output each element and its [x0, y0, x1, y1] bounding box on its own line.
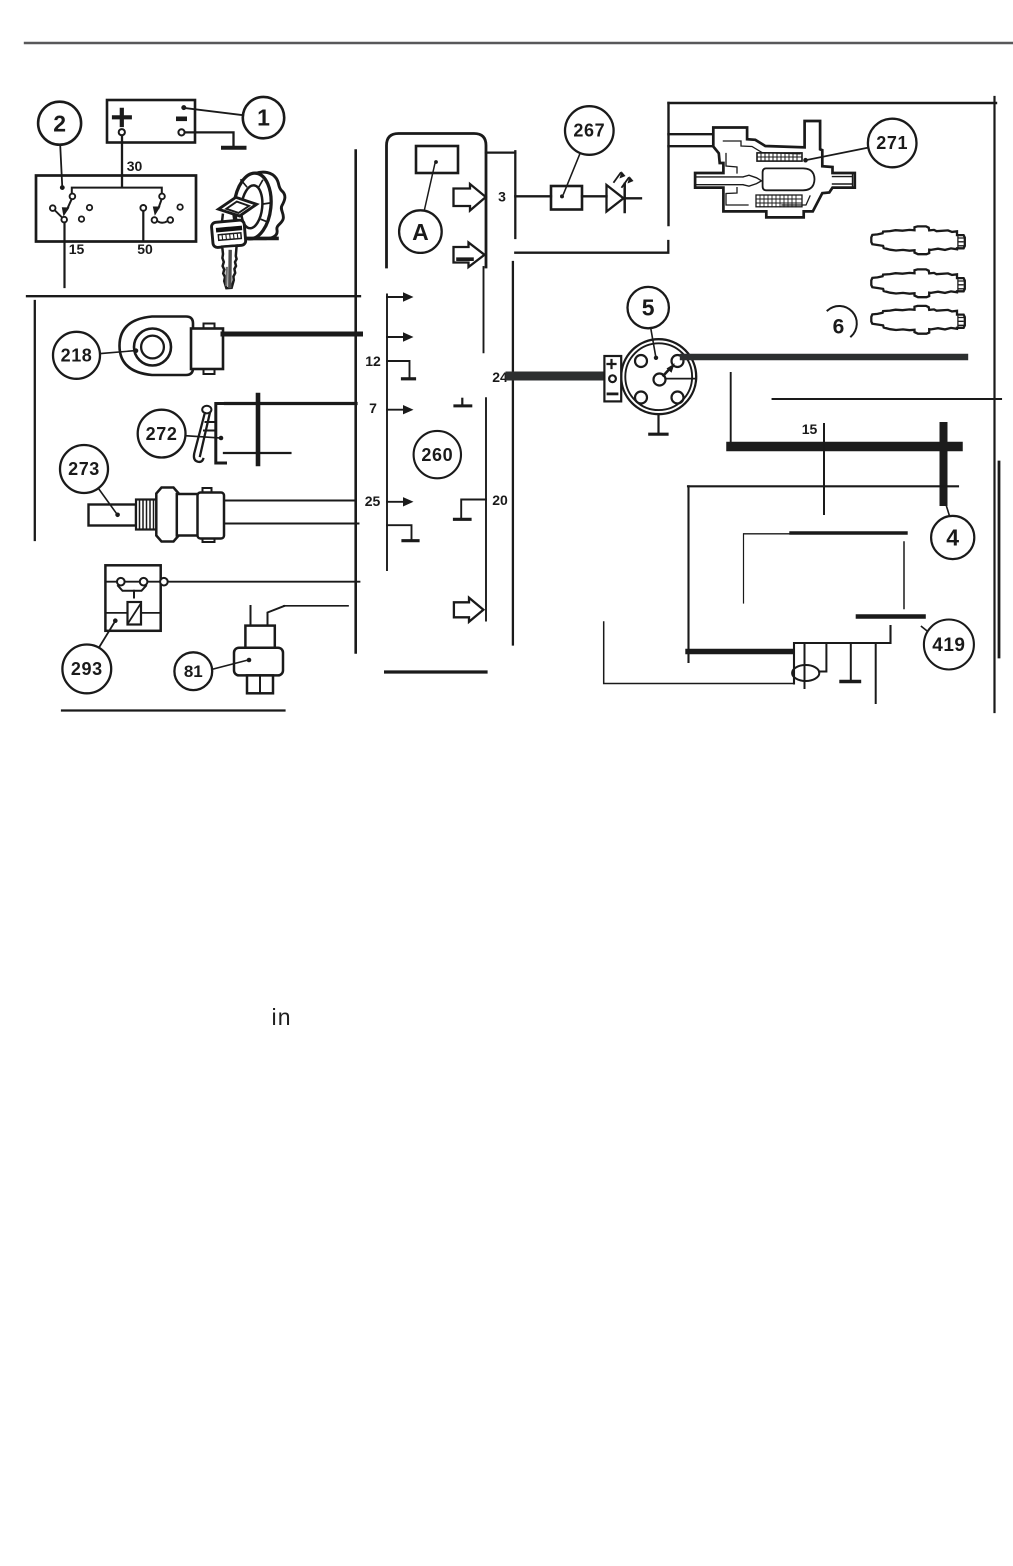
vertical drop wire [730, 373, 732, 442]
key head [211, 220, 246, 248]
left switch arrowhead [62, 207, 70, 216]
key head dark stripe [218, 228, 240, 230]
svg-text:260: 260 [421, 445, 453, 465]
relay 293 box [105, 565, 160, 631]
leader line 273 [99, 489, 117, 513]
plug contact BR [672, 392, 684, 404]
module pin4 [875, 643, 877, 703]
sensor hex nut [156, 488, 178, 542]
pin T symbol [461, 399, 463, 404]
relay mid line [105, 612, 160, 614]
battery 1 [107, 100, 195, 143]
callout circle 271 [868, 119, 917, 168]
horizontal wire upper right [773, 398, 1001, 400]
leader dot 271 [803, 158, 808, 163]
drop to 271 [667, 103, 669, 225]
271 inner contour [723, 141, 810, 205]
wire battery minus to ground [185, 132, 234, 144]
leader line 267 [564, 154, 581, 195]
svg-text:218: 218 [61, 346, 93, 366]
relay bridge [118, 586, 146, 591]
module coil ellipse [792, 665, 819, 681]
lower stub wire 272 [224, 452, 290, 454]
long left vertical line [354, 151, 357, 653]
battery positive terminal [119, 129, 125, 135]
271 injector core [763, 168, 815, 190]
stray contact a [87, 205, 92, 210]
inner box left vertical [743, 534, 745, 603]
battery plus mark [114, 110, 130, 125]
thin vertical through bus [823, 424, 825, 514]
LED light arrows [614, 173, 621, 182]
leader dot 273 [115, 513, 120, 518]
right switch arm [159, 200, 162, 209]
switch 272 legs [194, 413, 205, 462]
thick vertical bar [940, 426, 948, 502]
ECU right top segment [483, 267, 485, 352]
ignition switch 2 box [36, 176, 196, 242]
left switch arm [67, 200, 71, 210]
wire fuse to LED [582, 195, 607, 197]
module ground bar [841, 680, 860, 683]
relay stub [133, 591, 135, 598]
leader line A [425, 164, 435, 210]
ground (battery) [223, 146, 245, 150]
stub into 271 lower [669, 145, 715, 147]
callout circle 81 [174, 652, 212, 690]
svg-text:30: 30 [127, 158, 143, 174]
arrow pin 3 [454, 184, 486, 211]
pin step lower [387, 525, 412, 538]
knock sensor 218 body [120, 317, 194, 376]
crossing stub wire [256, 395, 261, 464]
ECU left pin spine [386, 295, 388, 571]
thick wire 24 [510, 372, 604, 381]
LED cathode [623, 184, 626, 212]
lock base bar [249, 237, 277, 241]
top grey rule [25, 42, 1013, 44]
wire 30 from battery to switch [121, 136, 123, 188]
svg-text:2: 2 [53, 111, 66, 137]
leader line 81 [212, 660, 247, 669]
LED triangle [607, 185, 624, 212]
pin arrow 25 [387, 501, 404, 503]
svg-text:419: 419 [932, 635, 965, 656]
lock ring inner [239, 184, 264, 229]
leader dot in switch box [60, 185, 65, 190]
module pin2 [819, 643, 826, 672]
lock escutcheon wavy edge [252, 172, 285, 239]
left corner vertical [687, 486, 689, 662]
ECU bottom divider [386, 670, 486, 673]
distributor ground bar [650, 433, 667, 436]
leader line 218 [100, 351, 134, 354]
inner box top thin [744, 533, 906, 535]
injection unit 271 outline [695, 121, 855, 217]
contact 30 left [70, 194, 76, 200]
pressure switch 81 pin2 [268, 606, 285, 626]
wire 50 [142, 211, 144, 240]
svg-text:12: 12 [365, 353, 381, 369]
left bracket line [34, 301, 36, 540]
leader dot 293 [113, 618, 118, 623]
right edge vertical [993, 97, 995, 712]
module pin1 through coil [804, 643, 806, 688]
leader line from 2 [60, 145, 62, 186]
svg-text:271: 271 [876, 133, 908, 153]
callout circle 2 [38, 102, 81, 145]
wire from 81 [284, 605, 348, 607]
label 6 arc [828, 306, 857, 337]
contact left aux [50, 205, 56, 211]
switch 81 hex [247, 675, 273, 693]
271 coil hatched top [757, 153, 802, 161]
leader line 5 [651, 329, 656, 356]
connector bump top [204, 324, 215, 329]
switch 272 rungs [204, 422, 216, 431]
top link [486, 151, 515, 153]
rotor arrow [664, 370, 670, 376]
module pin3 ground stem [850, 643, 852, 680]
pin arrow top2 [387, 336, 404, 338]
right switch arrowhead [153, 207, 161, 216]
svg-text:81: 81 [184, 662, 203, 681]
svg-text:3: 3 [498, 189, 506, 205]
outer right column upper [514, 151, 516, 238]
thick wire to coil [683, 354, 965, 360]
leader line to 1 [186, 108, 243, 115]
wire 7 from 272 [226, 402, 357, 405]
callout circle 419 [924, 620, 974, 670]
svg-text:A: A [412, 219, 429, 245]
contact 15 [61, 217, 67, 223]
plug contact TL [635, 355, 647, 367]
svg-text:293: 293 [71, 659, 103, 679]
sensor body [177, 494, 199, 536]
thick wire 218 to ECU [223, 332, 361, 337]
contact st left [152, 217, 158, 223]
271 needle [695, 175, 761, 186]
distributor inner circle [625, 343, 692, 410]
svg-text:1: 1 [257, 105, 270, 131]
pin arrow top1 [387, 296, 404, 298]
bottom divider line [62, 709, 285, 711]
key head hatched stripe [218, 233, 241, 241]
callout circle 5 [628, 287, 669, 328]
svg-text:25: 25 [365, 493, 381, 509]
svg-text:15: 15 [802, 421, 818, 437]
svg-text:6: 6 [833, 316, 845, 339]
svg-text:5: 5 [642, 295, 655, 321]
key blade [222, 246, 236, 289]
plug contact BL [635, 392, 647, 404]
stub into 271 upper [669, 133, 715, 135]
leader line 4 [946, 503, 950, 516]
horizontal wire mid [688, 485, 958, 487]
callout circle 272 [138, 410, 186, 458]
inner box top thick overlay [791, 531, 906, 534]
svg-text:273: 273 [68, 459, 100, 479]
section divider line [27, 295, 360, 297]
ring hatch marks [241, 180, 270, 222]
temp sensor 273 probe [89, 505, 137, 526]
callout circle 4 [931, 516, 974, 559]
pin 12 step [387, 361, 410, 377]
contact 50 top [140, 205, 146, 211]
pin arrow 7 [387, 409, 404, 411]
switch 272 roller [202, 406, 211, 414]
battery minus mark [176, 117, 187, 122]
key neck [222, 215, 237, 222]
svg-text:4: 4 [946, 525, 959, 551]
unit A inner box [416, 146, 458, 173]
wire 25 upper [224, 500, 355, 502]
key grip (perspective) [219, 197, 257, 216]
svg-text:50: 50 [137, 241, 153, 257]
thick bus 15 [731, 442, 958, 452]
relay contact circles [117, 578, 125, 586]
outer right column lower [512, 262, 514, 645]
wire lower 273 [224, 523, 359, 525]
thin wire from rotor [666, 378, 696, 380]
terminal minus [608, 392, 617, 395]
slash bar [458, 257, 472, 261]
callout circle 267 [565, 106, 614, 155]
leader line 293 [99, 623, 114, 648]
terminal o [609, 375, 616, 382]
svg-text:7: 7 [369, 400, 377, 416]
battery negative terminal [178, 129, 184, 135]
battery leader dot [181, 105, 186, 110]
bus wire inside box [72, 188, 162, 193]
leader dot 81 [247, 658, 252, 663]
leader tick 419 [922, 627, 927, 631]
lock ring outer [231, 171, 274, 240]
271 right arm lines [833, 173, 853, 188]
svg-text:272: 272 [146, 424, 178, 444]
relay contact line [105, 581, 160, 583]
sensor thread [136, 500, 158, 530]
callout circle 1 [243, 97, 284, 138]
contact 30 right [159, 194, 165, 200]
module 419 top rail [794, 626, 891, 684]
terminal plus [608, 360, 616, 368]
link curve [157, 221, 167, 223]
arrow pin lower (slashed) [454, 243, 485, 268]
distributor outer circle [621, 339, 696, 414]
key grip inner [226, 202, 249, 213]
leader dot 272 [219, 436, 224, 441]
wire to fuse 267 [515, 195, 551, 197]
callout circle A [399, 210, 442, 253]
thick bar above 419 [858, 614, 924, 619]
callout circle 218 [53, 332, 100, 379]
svg-text:20: 20 [492, 492, 508, 508]
stray contact b [79, 216, 84, 221]
callout circle 260 [414, 431, 461, 478]
top bus wire [669, 102, 997, 104]
link aux to 15 [55, 210, 62, 217]
connector bump bottom [204, 369, 215, 374]
svg-text:15: 15 [69, 241, 85, 257]
contact st right [168, 217, 174, 223]
throttle switch 272 bracket [216, 404, 226, 464]
leader dot 218 [134, 348, 139, 353]
relay coil [128, 602, 142, 625]
wire after LED [626, 197, 641, 199]
key blade groove [228, 252, 232, 287]
right edge vertical double [998, 462, 1001, 657]
rotor center [654, 374, 666, 386]
wire 15 down [63, 223, 65, 288]
leader dot 5 [654, 356, 658, 360]
switch 81 body [234, 648, 283, 676]
thick wire into module [688, 649, 792, 654]
svg-text:in: in [272, 1004, 292, 1030]
wire relay to ECU [168, 581, 360, 583]
connector bumps 273 [203, 488, 215, 542]
inner box right vertical [903, 542, 905, 609]
ECU right spine [485, 398, 487, 620]
271 coil hatched bottom [756, 195, 802, 207]
sensor ring inner [141, 336, 164, 359]
callout circle 293 [62, 645, 111, 694]
sensor ring outer [134, 329, 171, 366]
thin return wire [604, 622, 794, 684]
pin 20 step [461, 500, 486, 518]
injector spark group 6 [871, 226, 965, 333]
leader line 271 [808, 148, 868, 160]
pressure switch 81 pin1 [250, 606, 252, 626]
leader line 272 [186, 436, 219, 438]
distributor ground stem [657, 414, 659, 432]
terminal block [604, 356, 621, 401]
callout circle 273 [60, 445, 108, 493]
unit A dot [434, 160, 438, 164]
stray contact right [177, 204, 182, 209]
switch 81 connector [245, 626, 274, 648]
fuse 267 [551, 186, 582, 210]
sensor connector 273 [198, 493, 225, 539]
relay output circle [160, 578, 168, 586]
sensor connector [191, 329, 223, 370]
bottom return wire [515, 241, 668, 253]
svg-text:267: 267 [573, 121, 605, 141]
fuse dot [560, 194, 564, 198]
plug contact TR [672, 355, 684, 367]
unit A housing [387, 134, 487, 268]
ECU output hollow arrow [454, 598, 484, 622]
